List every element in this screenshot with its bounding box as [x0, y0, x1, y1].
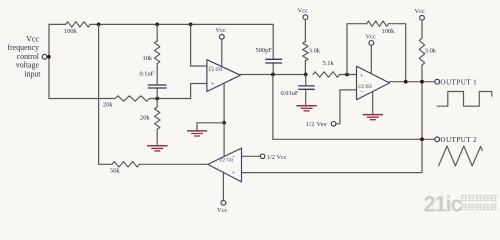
icon triangle wave: [439, 146, 483, 166]
resistor R4 20k vertical: [155, 107, 160, 129]
wire triangle node to OUTPUT2: [273, 75, 435, 140]
terminal 1/2 Vee: [331, 122, 336, 127]
capacitor C3 0.01uF: [305, 75, 307, 105]
svg-text:frequency: frequency: [7, 43, 39, 52]
node C top rail: [189, 23, 193, 27]
node 20k junction: [155, 97, 159, 101]
wire 50k to U3 output: [140, 163, 208, 165]
wire U3 minus to 1/2 Vcc: [242, 155, 261, 157]
wire left-bottom vertical x=98.6: [99, 24, 112, 164]
op-amp U1 1/2 393: [207, 60, 241, 92]
wire feedback loop up: [347, 24, 406, 82]
node A top rail: [97, 23, 101, 27]
svg-text:+: +: [231, 170, 235, 177]
svg-text:Vcc: Vcc: [298, 8, 308, 15]
wire U1 bottom to ground node: [223, 84, 225, 123]
terminal 1/2 Vcc: [260, 154, 265, 159]
svg-text:100k: 100k: [64, 28, 78, 35]
node U2 plus input: [345, 73, 349, 77]
node ground junction: [222, 121, 226, 125]
svg-text:5.1k: 5.1k: [323, 60, 335, 67]
wire U2 output to OUTPUT1: [390, 81, 435, 83]
wire left vertical: [48, 24, 50, 98]
svg-text:Vcc: Vcc: [217, 207, 227, 214]
svg-text:OUTPUT 2: OUTPUT 2: [440, 136, 477, 144]
ground under U2: [363, 115, 382, 120]
label input text: [7, 35, 41, 79]
wire 20k horizontal line: [49, 84, 207, 99]
svg-text:Vcc: Vcc: [26, 35, 39, 44]
svg-text:3.0k: 3.0k: [309, 48, 321, 55]
wire top horizontal rail: [49, 23, 273, 25]
ground under 20k: [148, 146, 168, 151]
resistor R8 100k: [367, 21, 389, 26]
svg-text:OUTPUT 1: OUTPUT 1: [440, 78, 477, 86]
resistor R9 3.0k: [419, 38, 424, 65]
watermark glyph blocks: [461, 196, 496, 210]
terminal OUTPUT 2: [435, 137, 440, 142]
resistor R1 100k: [66, 22, 91, 27]
node input tap: [47, 55, 51, 59]
wire 5.1k to U2 plus: [340, 74, 357, 76]
wire U3 top power from ground node: [223, 123, 225, 156]
resistor R3 10k: [155, 41, 160, 64]
svg-text:3.0k: 3.0k: [425, 48, 437, 55]
node output2 junction: [420, 137, 424, 141]
op-amp U2 1/2 393: [357, 66, 390, 100]
wire U2 minus input to 1/2 Vee: [336, 90, 357, 124]
capacitor C1 0.1uF: [148, 85, 166, 88]
svg-text:20k: 20k: [140, 115, 150, 122]
svg-text:voltage: voltage: [16, 61, 40, 70]
node feedback tap: [404, 80, 408, 84]
svg-text:0.1uF: 0.1uF: [140, 71, 155, 78]
ground under C3: [297, 106, 316, 111]
node 500pF output junction: [271, 73, 275, 77]
svg-text:10k: 10k: [143, 55, 153, 62]
terminal OUTPUT 1: [435, 79, 440, 84]
wire minus input of U1: [191, 24, 207, 66]
resistor R2 20k: [115, 96, 150, 101]
wire input stub: [47, 56, 49, 58]
svg-text:500pF: 500pF: [256, 47, 273, 54]
wire U1 output line: [240, 74, 305, 76]
svg-text:1/2 Vee: 1/2 Vee: [306, 121, 328, 128]
resistor R7 5.1k: [313, 72, 340, 77]
node output1 junction: [420, 80, 424, 84]
wire R9 vertical rail: [242, 20, 423, 172]
wire mid vertical from 10k chain: [156, 24, 158, 144]
svg-text:0.01uF: 0.01uF: [281, 90, 299, 97]
wire U3 bottom power: [222, 172, 224, 200]
svg-text:21ic: 21ic: [424, 192, 463, 216]
svg-text:1/2 Vcc: 1/2 Vcc: [267, 154, 287, 161]
node B top rail: [155, 23, 159, 27]
svg-text:Vcc: Vcc: [366, 33, 376, 40]
node R6/C3 junction: [304, 73, 308, 77]
svg-text:input: input: [24, 69, 41, 78]
power Vcc U3: [221, 200, 226, 205]
svg-text:Vcc: Vcc: [415, 8, 425, 15]
wire U2 bottom to ground: [372, 92, 374, 114]
svg-text:100k: 100k: [382, 28, 396, 35]
svg-text:–: –: [231, 154, 236, 160]
wire ground branch: [197, 123, 224, 130]
svg-text:+: +: [360, 72, 364, 79]
wire Vcc to R6: [304, 20, 306, 75]
svg-text:20k: 20k: [103, 102, 113, 109]
watermark 21ic: [424, 192, 463, 217]
ground under U1: [188, 131, 207, 136]
input terminal: [42, 54, 47, 59]
svg-text:50k: 50k: [110, 168, 120, 175]
svg-text:control: control: [17, 52, 40, 61]
icon square wave: [437, 92, 492, 107]
svg-text:+: +: [211, 81, 215, 88]
capacitor C2 500pF: [272, 24, 274, 74]
svg-text:Vcc: Vcc: [216, 27, 226, 34]
op-amp U3 1/2 741: [208, 148, 242, 182]
resistor R5 50k: [112, 162, 140, 167]
resistor R6 3.0k: [303, 42, 308, 61]
